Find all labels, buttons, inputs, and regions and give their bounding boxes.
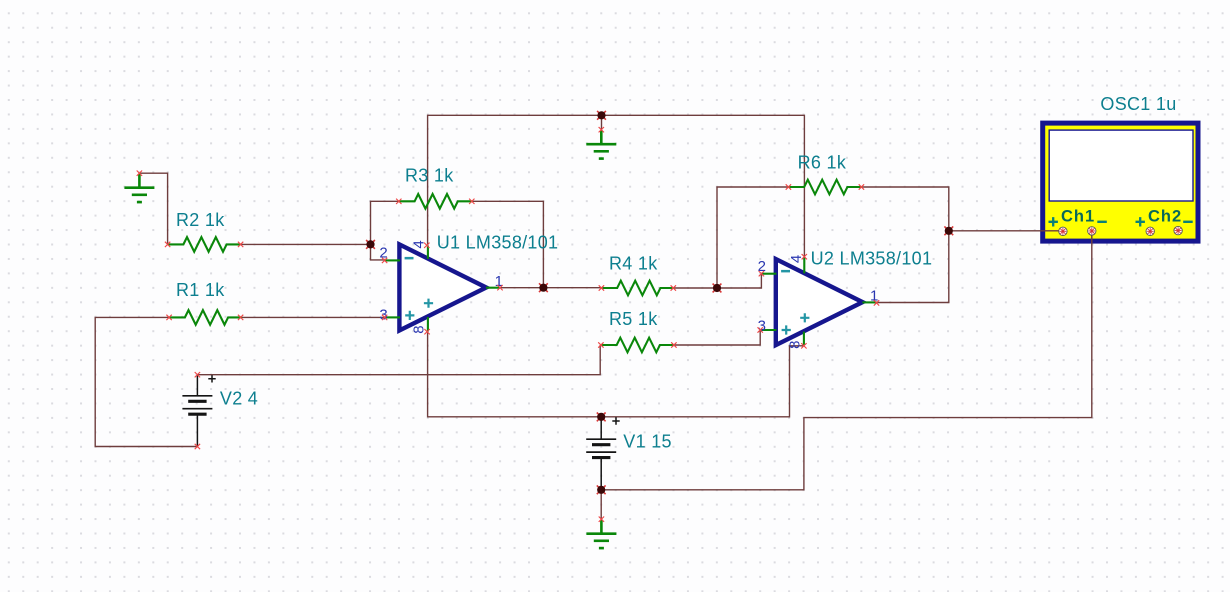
svg-text:R4 1k: R4 1k (609, 254, 658, 274)
svg-text:8: 8 (786, 341, 803, 349)
svg-text:OSC1 1u: OSC1 1u (1100, 94, 1176, 114)
svg-text:R3 1k: R3 1k (405, 165, 454, 185)
svg-text:R6 1k: R6 1k (798, 153, 847, 173)
svg-text:U1 LM358/101: U1 LM358/101 (437, 233, 559, 253)
svg-text:V2 4: V2 4 (220, 388, 258, 408)
svg-text:Ch1: Ch1 (1061, 208, 1095, 226)
svg-text:R2 1k: R2 1k (176, 210, 225, 230)
svg-text:R5 1k: R5 1k (609, 309, 658, 329)
svg-text:V1 15: V1 15 (623, 432, 672, 452)
svg-text:R1 1k: R1 1k (176, 280, 225, 300)
svg-text:U2 LM358/101: U2 LM358/101 (811, 248, 933, 268)
svg-text:Ch2: Ch2 (1148, 208, 1182, 226)
svg-text:2: 2 (758, 258, 766, 275)
